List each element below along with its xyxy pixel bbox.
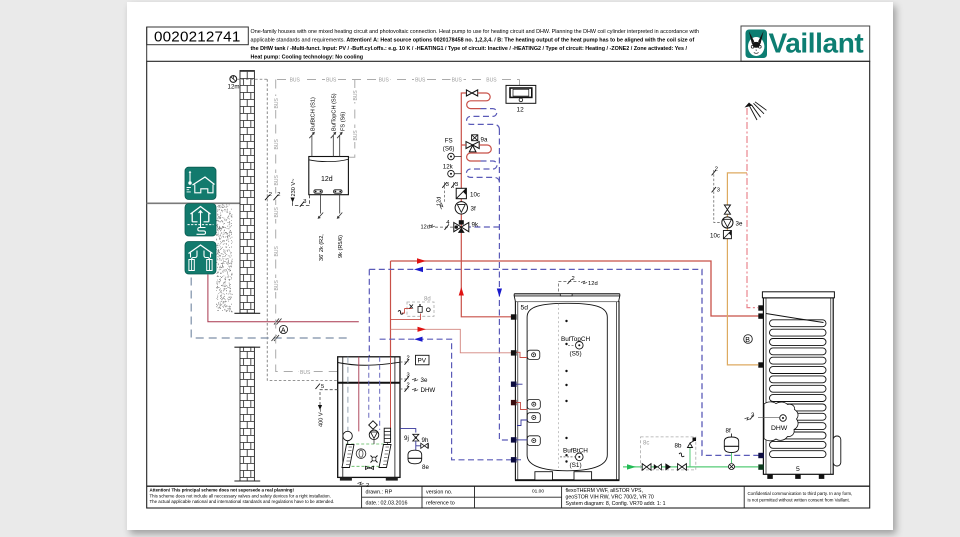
break mark on brine warm — [274, 319, 279, 325]
buffer return branch — [380, 339, 511, 460]
valve 9j — [404, 434, 419, 442]
product identification — [566, 488, 666, 507]
wire stub 3e — [400, 373, 428, 385]
centre reference line — [557, 304, 559, 469]
cold water main — [623, 466, 758, 468]
shut-off valve (top of riser) — [466, 90, 477, 96]
internal pump — [369, 430, 379, 440]
svg-text:9a: 9a — [481, 137, 488, 144]
svg-text:3f: 3f — [471, 206, 476, 213]
DHW internal coil — [770, 320, 827, 458]
eBUS drop to controller 12d — [348, 80, 354, 158]
svg-text:3: 3 — [407, 373, 410, 379]
230V supply to 12d — [291, 178, 310, 207]
DHW coil feed slant — [766, 314, 824, 323]
svg-text:Attention! This principal sche: Attention! This principal scheme does no… — [150, 488, 295, 493]
svg-text:9k: 9k — [472, 222, 479, 229]
wire from 12m across wall — [237, 78, 268, 80]
page sheet — [127, 2, 893, 530]
svg-text:drawn.: RP: drawn.: RP — [366, 490, 393, 496]
relay wire R2 — [318, 195, 325, 261]
svg-text:The actual applicable national: The actual applicable national and inter… — [150, 499, 335, 504]
ground line — [147, 202, 240, 204]
svg-text:8b: 8b — [675, 443, 682, 450]
power supply 400V — [316, 384, 338, 427]
brick wall lower segment — [240, 347, 254, 481]
buffer charge branch (thin) — [391, 329, 512, 353]
P2 internal link — [517, 352, 528, 357]
svg-text:2: 2 — [407, 383, 410, 389]
heating circuit 2 flow serpentine — [467, 145, 492, 161]
heat pump return main — [369, 269, 758, 455]
svg-text:(S6): (S6) — [443, 146, 455, 153]
svg-text:9j: 9j — [404, 435, 409, 442]
buffer tank 5d casing — [515, 302, 619, 481]
MAIN CONTENT GROUPS INSERTED BELOW — [147, 26, 870, 61]
DHW lid — [762, 292, 834, 298]
flow main arrow — [417, 258, 426, 263]
circulation pump 3e — [722, 217, 743, 228]
header description text — [251, 29, 700, 60]
return main arrow — [414, 267, 423, 272]
pressure reducing valve — [665, 463, 671, 470]
svg-text:Vaillant: Vaillant — [769, 28, 864, 59]
pump 3f — [455, 202, 476, 214]
svg-text:flexoTHERM VWF, allSTOR VPS,: flexoTHERM VWF, allSTOR VPS, — [566, 488, 643, 494]
outdoor sensor 12m — [228, 76, 240, 91]
svg-text:BUS: BUS — [353, 130, 359, 141]
heat exchanger plates right — [379, 445, 391, 468]
sensor lead FS (S6) — [337, 112, 346, 157]
cable break mark 2 (12m cable) — [265, 192, 272, 200]
system control 12 — [506, 85, 536, 113]
internal stub 2 — [527, 399, 540, 409]
svg-text:DHW: DHW — [421, 387, 436, 394]
svg-text:12d: 12d — [321, 176, 333, 183]
node A — [279, 325, 287, 334]
DHW port cold in — [758, 464, 764, 469]
return flow arrow — [497, 289, 502, 298]
svg-text:3e: 3e — [421, 377, 428, 384]
confidentiality note — [748, 491, 853, 503]
DHW hot water pipe — [747, 108, 758, 308]
sensor 12k — [443, 164, 462, 178]
heat exchanger plates left — [342, 445, 354, 468]
svg-text:date.: 02.03.2016: date.: 02.03.2016 — [366, 501, 408, 507]
drain valve 9h — [421, 437, 429, 448]
heating flow riser — [461, 93, 466, 233]
version / reference — [426, 490, 455, 507]
control cable refs for 3e — [712, 167, 722, 223]
svg-text:8f: 8f — [726, 428, 731, 435]
shower outlet — [745, 102, 767, 120]
expansion vessel 8e — [408, 450, 429, 471]
evaporator module (green dashed) — [346, 440, 387, 470]
eBUS drop to control 12 — [519, 80, 521, 86]
port P3 — [511, 382, 517, 387]
control cable to 9k — [421, 220, 458, 231]
cold water arrow — [627, 464, 636, 469]
DHW port circulation — [758, 362, 764, 367]
internal drop lines — [347, 357, 349, 444]
svg-text:BUS: BUS — [486, 78, 497, 84]
svg-text:BUS: BUS — [300, 370, 311, 376]
port P6 return to heat pump — [511, 457, 517, 462]
svg-text:3: 3 — [303, 199, 306, 205]
svg-text:12: 12 — [517, 107, 525, 114]
wall bottom cap — [234, 480, 260, 482]
expansion valve — [369, 421, 378, 429]
svg-text:geoSTOR VIH RW, VRC 700/2, VR: geoSTOR VIH RW, VRC 700/2, VR 70 — [566, 495, 654, 501]
wire ref 2 under unit — [358, 482, 370, 489]
sensor BufBtCH (S1) — [560, 448, 588, 470]
heating circuit 1 return serpentine — [467, 109, 500, 130]
internal stub 4 — [527, 436, 540, 446]
svg-text:2: 2 — [572, 276, 575, 282]
svg-text:This scheme does not include a: This scheme does not include all neccess… — [150, 493, 331, 498]
svg-text:FS (S6): FS (S6) — [340, 112, 346, 131]
mixing valve 9a — [466, 135, 488, 152]
svg-text:BufTopCH: BufTopCH — [561, 336, 591, 343]
controller 12d — [309, 157, 349, 195]
brine warm pipe from ground loop — [208, 275, 359, 322]
port P1 flow to circuits — [511, 314, 517, 319]
svg-text:B: B — [745, 337, 750, 344]
brick wall upper segment — [240, 71, 254, 314]
svg-text:BUS: BUS — [274, 175, 280, 186]
BUS label into heat pump — [299, 368, 313, 375]
svg-text:12d: 12d — [421, 225, 430, 231]
svg-text:10c: 10c — [470, 192, 480, 199]
break mark on brine cold — [272, 335, 277, 341]
DHW circulation pipe — [727, 173, 758, 365]
heating circuit 1 flow serpentine — [467, 93, 490, 109]
svg-text:8d: 8d — [424, 297, 431, 303]
svg-text:01.00: 01.00 — [532, 489, 544, 495]
riser 9k to buffer top port — [461, 233, 511, 317]
filter 10c — [456, 188, 480, 198]
buffer inner vessel — [527, 303, 607, 471]
svg-text:version no.: version no. — [426, 490, 452, 496]
shut-off valve 2 — [678, 464, 687, 471]
svg-text:8e: 8e — [422, 464, 429, 471]
svg-text:400 V~: 400 V~ — [319, 408, 325, 427]
eBUS riser left — [276, 80, 338, 372]
heating circuit 2 return serpentine — [466, 161, 499, 182]
svg-text:BUS: BUS — [326, 78, 337, 84]
attention note — [150, 488, 335, 504]
return branch arrow — [414, 337, 423, 342]
eBUS horizontal trunk — [277, 79, 520, 81]
circulation filter 10c — [710, 231, 731, 240]
DHW handhole flange — [833, 436, 841, 466]
icon house underfloor-heating — [185, 204, 216, 236]
svg-text:One-family houses with one mix: One-family houses with one mixed heating… — [251, 29, 700, 35]
sensor lead BufTopCH (S5) — [331, 93, 338, 156]
Vaillant logo — [741, 26, 870, 61]
wall upper cap — [234, 312, 260, 314]
cable 12m drop to heat pump — [267, 79, 338, 380]
cable refs 3 3 and 12d — [436, 182, 458, 209]
heat pump flow main — [391, 261, 759, 316]
wire stub DHW — [400, 383, 435, 395]
sensor pocket cloud — [764, 402, 798, 441]
svg-text:Heat pump: Cooling technology:: Heat pump: Cooling technology: No coolin… — [251, 54, 364, 60]
sensor BufTopCH (S5) — [561, 336, 591, 358]
brine cold pipe to ground loop — [191, 278, 348, 339]
svg-text:A: A — [281, 327, 286, 334]
soil stipple hatch — [216, 205, 232, 312]
flow arrow up — [459, 287, 464, 296]
svg-text:BUS: BUS — [274, 98, 280, 109]
svg-text:the DHW tank / -Multi-funct. I: the DHW tank / -Multi-funct. Input: PV /… — [251, 46, 688, 52]
wire stub PV — [400, 355, 429, 365]
svg-text:2: 2 — [277, 192, 280, 198]
DHW port hot out — [758, 305, 764, 310]
svg-text:5: 5 — [321, 384, 324, 390]
node B — [744, 335, 753, 344]
return branch to 9k — [469, 226, 499, 228]
svg-text:36' 2k (R2,: 36' 2k (R2, — [319, 234, 325, 261]
internal stub 3 — [527, 413, 540, 423]
svg-text:BUS: BUS — [415, 78, 426, 84]
svg-text:2: 2 — [269, 192, 272, 198]
DHW cylinder body — [763, 298, 833, 475]
check valve — [654, 464, 662, 470]
buffer feet — [535, 472, 553, 480]
svg-text:(S1): (S1) — [570, 462, 582, 469]
svg-text:9k (R5/6): 9k (R5/6) — [338, 235, 344, 258]
svg-text:9h: 9h — [422, 437, 429, 444]
svg-text:reference to: reference to — [426, 501, 455, 507]
DHW feet — [767, 474, 824, 479]
flow sensor FS (S6) — [443, 138, 462, 160]
svg-text:applicable standards and requi: applicable standards and requirements. A… — [251, 38, 695, 44]
part-number box 0020212741 — [147, 27, 249, 46]
port P4 — [511, 400, 517, 405]
charge branch arrow — [418, 327, 427, 332]
title block grid — [147, 486, 870, 508]
svg-text:BUS: BUS — [290, 78, 301, 84]
stratification dots — [565, 321, 567, 462]
backup heater — [384, 428, 390, 442]
buffer tank lid — [514, 294, 620, 302]
svg-text:BUS: BUS — [274, 139, 280, 150]
svg-text:BUS: BUS — [274, 280, 280, 291]
expansion line to 8e — [400, 429, 416, 433]
buffer top sensor cable 2/12d — [558, 276, 597, 292]
heat pump feet — [340, 477, 352, 480]
drawn / date — [366, 490, 408, 507]
port P5 return from circuits — [511, 437, 517, 442]
svg-text:5: 5 — [796, 466, 800, 473]
frame left riser to number box — [146, 27, 148, 61]
svg-text:0020212741: 0020212741 — [154, 29, 240, 46]
DHW port coil return — [758, 453, 764, 458]
svg-text:BufBtCH: BufBtCH — [563, 448, 588, 455]
relay wire R5/6 — [337, 195, 344, 258]
internal stub 1 — [527, 350, 540, 359]
sensor DHW — [745, 413, 788, 433]
sensor lead BufBtCH (S1) — [309, 97, 316, 157]
circuit 2 flow spur — [461, 144, 466, 146]
svg-text:3: 3 — [717, 188, 720, 194]
svg-text:8c: 8c — [643, 441, 649, 447]
svg-text:System diagram: 8, Config. VR7: System diagram: 8, Config. VR70 addr. 1:… — [566, 501, 666, 507]
svg-text:5d: 5d — [521, 305, 529, 312]
svg-text:BUS: BUS — [274, 246, 280, 257]
cold water inlet group 8c — [641, 437, 696, 470]
svg-text:BUS: BUS — [353, 90, 359, 101]
svg-text:3e: 3e — [736, 221, 743, 228]
heat pump return riser — [368, 269, 370, 356]
svg-text:(S5): (S5) — [570, 351, 582, 358]
heat pump flexoTHERM body — [338, 357, 400, 478]
svg-text:FS: FS — [445, 138, 453, 145]
svg-text:2: 2 — [407, 356, 410, 362]
svg-text:DHW: DHW — [771, 425, 788, 432]
3-way valve 9k — [454, 220, 479, 233]
svg-text:12d: 12d — [436, 197, 442, 206]
shut-off valve — [642, 464, 651, 471]
DHW port coil flow in — [758, 313, 764, 318]
svg-text:3: 3 — [455, 182, 458, 188]
svg-text:3: 3 — [446, 182, 449, 188]
svg-text:4: 4 — [446, 220, 450, 226]
svg-text:10c: 10c — [710, 233, 720, 240]
svg-text:Confidential communication to: Confidential communication to third part… — [748, 491, 853, 496]
svg-text:2: 2 — [715, 167, 718, 173]
circulation shut-off valve — [724, 205, 730, 214]
port P2 charge flow — [511, 350, 517, 355]
wall lower cap — [234, 346, 260, 348]
svg-text:BufTopCH (S5): BufTopCH (S5) — [332, 93, 338, 131]
icon house outdoor-temp — [185, 167, 216, 199]
heat pump flow riser — [390, 261, 392, 357]
break mark 2 on eBUS riser — [274, 192, 281, 200]
safety valve 8b — [675, 438, 697, 467]
svg-text:PV: PV — [418, 358, 427, 365]
safety group 8d — [391, 297, 435, 320]
svg-text:12k: 12k — [443, 164, 454, 171]
compressor — [343, 431, 352, 440]
svg-text:BUS: BUS — [379, 78, 390, 84]
expansion vessel 8f — [724, 428, 738, 470]
svg-text:12m: 12m — [228, 84, 240, 91]
svg-text:12d: 12d — [588, 281, 598, 287]
drawing border frame — [147, 61, 870, 508]
svg-text:BUS: BUS — [274, 207, 280, 218]
svg-text:BufBtCH (S1): BufBtCH (S1) — [310, 97, 316, 131]
svg-text:BUS: BUS — [452, 78, 463, 84]
svg-text:230 V~: 230 V~ — [291, 178, 297, 197]
svg-text:is not permitted without writt: is not permitted without written consent… — [748, 498, 850, 503]
icon house ground-probes — [185, 242, 216, 275]
heating return riser — [499, 129, 511, 440]
